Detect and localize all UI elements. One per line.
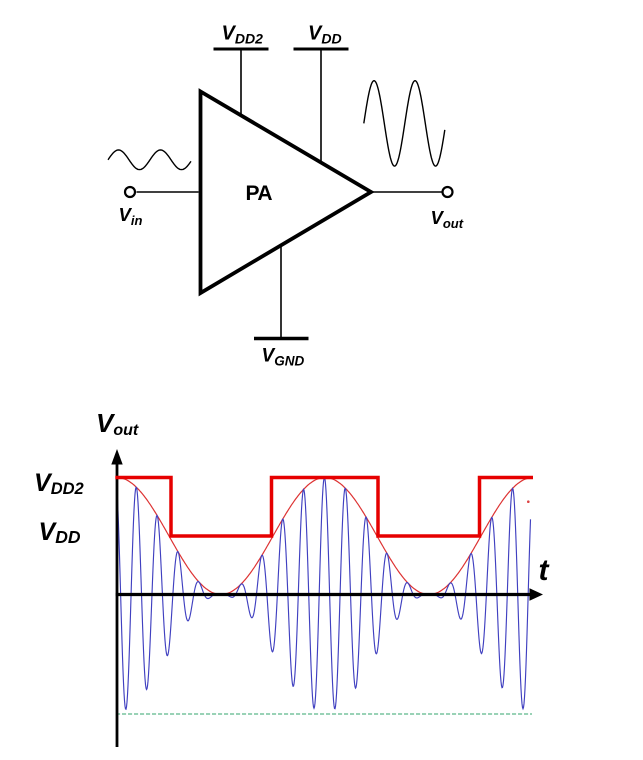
input terminal circle [125,187,135,197]
minimum level dashed line [116,713,532,715]
supply rail bar VDD2 [214,48,269,51]
supply rail bar VDD [294,48,349,51]
output envelope curve (thin red) [117,478,533,595]
wire input to PA [137,191,199,193]
wire VDD2 to PA [240,50,242,115]
wire VDD to PA [320,50,322,162]
svg-text:t: t [539,554,551,587]
output terminal circle [443,187,453,197]
wire PA to ground [280,246,282,338]
svg-text:Vin: Vin [119,204,143,228]
wire PA to output [373,191,442,193]
x axis (time) [116,593,531,596]
input waveform (small sine) [108,150,191,170]
x axis arrowhead [530,588,544,600]
svg-text:Vout: Vout [431,207,464,231]
svg-text:VDD: VDD [39,518,81,547]
svg-text:VDD2: VDD2 [222,23,264,47]
output waveform (large sine) [364,81,445,166]
y axis (Vout) [116,462,119,747]
svg-text:VDD: VDD [308,23,342,47]
svg-text:Vout: Vout [96,408,139,439]
envelope tail dot artifact [527,500,530,503]
svg-text:PA: PA [245,182,272,205]
supply modulation square wave (thick red) [115,478,533,537]
RF output signal (blue carrier) [117,478,531,710]
y axis arrowhead [111,449,122,465]
svg-text:VGND: VGND [262,346,305,369]
amplifier PA triangle [201,92,372,294]
ground bar VGND [254,337,309,341]
svg-text:VDD2: VDD2 [34,469,84,498]
